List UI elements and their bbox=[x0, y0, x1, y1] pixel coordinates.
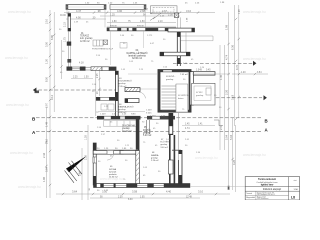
axis B dashed line bbox=[32, 116, 268, 123]
tiny dim texts below bottom wall bbox=[89, 187, 109, 192]
svg-text:1.049: 1.049 bbox=[100, 114, 106, 116]
svg-text:7.05 m2: 7.05 m2 bbox=[180, 74, 189, 76]
svg-text:greslap: greslap bbox=[118, 108, 126, 111]
top dimension line bbox=[64, 13, 215, 23]
wall below bay (horizontal) bbox=[160, 52, 190, 56]
svg-text:32.60 m2: 32.60 m2 bbox=[132, 57, 143, 60]
west wing: vertical wall x115.3 bbox=[115, 71, 118, 116]
svg-text:6.30: 6.30 bbox=[128, 199, 133, 200]
top-right bay wall (outlined) bbox=[168, 28, 195, 32]
svg-text:3.50: 3.50 bbox=[45, 41, 49, 47]
svg-text:12.48: 12.48 bbox=[186, 196, 192, 198]
balcony-to-bay connector lines bbox=[177, 17, 180, 28]
west wing interior dim line bbox=[97, 71, 101, 96]
hatched wall segment right of corner bbox=[91, 67, 116, 71]
central dark vertical wall below core bbox=[169, 113, 182, 184]
svg-text:2.25: 2.25 bbox=[97, 73, 99, 78]
bottom dimension ticks bbox=[62, 193, 217, 195]
nappali interior edge lines bbox=[128, 74, 160, 89]
interior thin verticals below top wall bbox=[111, 31, 144, 65]
svg-text:3.18: 3.18 bbox=[231, 94, 235, 100]
svg-text:3.58: 3.58 bbox=[132, 190, 138, 194]
west wing left edge lines bbox=[95, 71, 97, 116]
top dimension ticks bbox=[67, 11, 199, 13]
dimension row under terrace bbox=[73, 77, 89, 79]
svg-text:www.tervrajz.hu: www.tervrajz.hu bbox=[195, 156, 218, 160]
svg-text:KAMRA: KAMRA bbox=[151, 154, 159, 157]
svg-text:12.80 m2: 12.80 m2 bbox=[80, 41, 90, 43]
svg-text:2.10: 2.10 bbox=[45, 18, 49, 24]
svg-text:FŐZŐF.: FŐZŐF. bbox=[143, 129, 152, 132]
stair core outline bbox=[158, 70, 191, 113]
svg-text:90/240: 90/240 bbox=[137, 26, 144, 28]
terrace dim vertical bbox=[61, 40, 63, 79]
svg-text:4.74: 4.74 bbox=[185, 128, 190, 130]
svg-text:Tervező: Tervező bbox=[246, 192, 252, 195]
svg-text:parketta: parketta bbox=[109, 173, 117, 176]
svg-text:B: B bbox=[265, 118, 268, 123]
svg-text:1.049: 1.049 bbox=[196, 70, 202, 72]
terrace table symbol bbox=[93, 40, 103, 46]
svg-text:02 LÉPCSŐ: 02 LÉPCSŐ bbox=[178, 94, 190, 97]
svg-text:3.10: 3.10 bbox=[186, 9, 192, 13]
west wing: middle wall y97-100.7 bbox=[96, 97, 117, 101]
bottom-left room: left wall bbox=[93, 143, 96, 185]
dims above B wall bbox=[100, 110, 152, 116]
svg-text:1.98: 1.98 bbox=[239, 9, 241, 14]
counter row below kitchen wall bbox=[104, 121, 137, 127]
konyha room label bbox=[122, 125, 135, 133]
svg-text:2.41: 2.41 bbox=[219, 124, 223, 130]
nappali room label bbox=[127, 49, 148, 60]
svg-text:www.tervrajz.hu: www.tervrajz.hu bbox=[6, 103, 29, 107]
svg-text:3.40 m2: 3.40 m2 bbox=[160, 147, 168, 149]
svg-text:±0.00: ±0.00 bbox=[60, 15, 66, 17]
svg-text:3.54: 3.54 bbox=[257, 72, 262, 74]
svg-text:1.49: 1.49 bbox=[45, 121, 49, 127]
small mark on left dim line bbox=[35, 91, 40, 94]
top-center balcony block bbox=[151, 6, 178, 14]
svg-text:beton: beton bbox=[178, 97, 184, 100]
nappali furniture rect bbox=[120, 43, 127, 49]
svg-text:www.tervrajz.hu: www.tervrajz.hu bbox=[243, 10, 266, 14]
svg-text:8.50: 8.50 bbox=[45, 76, 49, 82]
door arc between bars bbox=[139, 92, 146, 98]
B-axis thick wall (kitchen wall) bbox=[97, 116, 175, 120]
svg-text:90/240: 90/240 bbox=[110, 26, 117, 28]
left dimension tick marks bbox=[45, 14, 55, 186]
svg-text:2.10: 2.10 bbox=[45, 138, 49, 144]
axis C dashed line (right) bbox=[178, 95, 267, 100]
svg-text:1.50: 1.50 bbox=[140, 21, 145, 23]
balcony corner X-box bbox=[174, 13, 178, 17]
svg-text:4.40: 4.40 bbox=[166, 190, 172, 194]
left low verticals (dim lines near szoba) bbox=[82, 125, 88, 200]
strip-to-wall connectors bbox=[67, 9, 145, 27]
right dimension ticks bbox=[227, 18, 240, 190]
svg-text:www.tervrajz.hu: www.tervrajz.hu bbox=[243, 57, 266, 61]
svg-text:www.tervrajz.hu: www.tervrajz.hu bbox=[10, 151, 33, 155]
main top wall with windows bbox=[107, 26, 177, 32]
svg-text:14.30 m2: 14.30 m2 bbox=[109, 177, 119, 179]
left dimension chain lines bbox=[46, 10, 54, 198]
svg-text:1.275: 1.275 bbox=[147, 35, 153, 37]
svg-text:1.049: 1.049 bbox=[146, 110, 152, 112]
svg-text:greslap: greslap bbox=[196, 94, 204, 97]
svg-text:1.05: 1.05 bbox=[140, 197, 145, 199]
bottom dim texts inside plan bbox=[97, 148, 133, 150]
svg-text:3.64: 3.64 bbox=[45, 166, 49, 172]
title block bbox=[245, 177, 299, 201]
svg-text:1.41: 1.41 bbox=[198, 124, 203, 126]
svg-text:03 KÖZL.: 03 KÖZL. bbox=[166, 75, 176, 78]
svg-text:05 KONYHA: 05 KONYHA bbox=[122, 125, 135, 128]
micro dimension texts scatter bbox=[59, 22, 222, 182]
bottom dimension line bbox=[56, 194, 230, 198]
svg-text:2120 Dunakeszi: 2120 Dunakeszi bbox=[257, 198, 269, 200]
terrace edge lines east of bay bbox=[181, 36, 214, 41]
small note text right of terrace label bbox=[92, 49, 114, 51]
terrace bottom wall: dark corner + window + piers bbox=[67, 67, 92, 71]
ground line to title block bbox=[190, 185, 246, 187]
svg-text:Nagy család: Nagy család bbox=[257, 197, 266, 199]
kamra walls (right of szoba) bbox=[169, 150, 183, 184]
stair inner landing rect bbox=[176, 84, 190, 112]
svg-text:1.98: 1.98 bbox=[225, 24, 229, 30]
svg-text:1.049: 1.049 bbox=[150, 116, 156, 118]
leader 2.40 diagonal bbox=[150, 13, 161, 21]
svg-text:1.75: 1.75 bbox=[63, 37, 66, 42]
svg-text:kult. greslap: kult. greslap bbox=[80, 37, 93, 40]
svg-text:2.44: 2.44 bbox=[42, 152, 46, 158]
kamra room label bbox=[151, 152, 159, 162]
room 06 label bbox=[118, 104, 133, 114]
dims right of central wall bbox=[185, 124, 203, 131]
upper floor wall strip (top, left part) bbox=[66, 5, 106, 10]
svg-text:2.30: 2.30 bbox=[118, 197, 123, 199]
svg-text:2.97: 2.97 bbox=[45, 102, 49, 108]
upper floor wall strip (top, middle part) bbox=[110, 5, 146, 10]
svg-text:1.20: 1.20 bbox=[45, 58, 49, 64]
svg-text:Megrendelő: Megrendelő bbox=[246, 196, 255, 199]
left dimension numbers (rotated) bbox=[42, 18, 54, 182]
svg-text:greslap: greslap bbox=[122, 127, 130, 130]
svg-text:2.10: 2.10 bbox=[158, 21, 163, 23]
right small room (bay, lower) bbox=[190, 72, 215, 105]
svg-text:3.10: 3.10 bbox=[198, 190, 204, 194]
bay right wall vertical double line bbox=[177, 32, 186, 66]
svg-text:2.20 m2: 2.20 m2 bbox=[151, 160, 159, 162]
terrace left wall (top-left vertical) bbox=[60, 14, 71, 67]
svg-text:5.04: 5.04 bbox=[229, 134, 233, 140]
svg-text:07 WC: 07 WC bbox=[196, 92, 203, 94]
right horizontal dim line bbox=[232, 72, 268, 75]
svg-text:6.80: 6.80 bbox=[50, 34, 54, 40]
svg-text:KÖZLEKEDŐ: KÖZLEKEDŐ bbox=[118, 80, 132, 83]
svg-text:10.42 m2: 10.42 m2 bbox=[122, 131, 132, 133]
room 07 label bbox=[160, 139, 169, 149]
svg-text:1.86: 1.86 bbox=[42, 176, 46, 182]
svg-text:KAMRA-MOSÓ: KAMRA-MOSÓ bbox=[118, 106, 133, 109]
bottom dimension numbers bbox=[72, 190, 204, 201]
axis C dashed line (left stub) bbox=[33, 88, 116, 93]
svg-text:2.25: 2.25 bbox=[73, 77, 78, 79]
svg-text:0.45: 0.45 bbox=[206, 70, 211, 72]
svg-text:1.45: 1.45 bbox=[219, 74, 223, 80]
bottom-left room: top wall bbox=[93, 151, 138, 155]
svg-text:1.80: 1.80 bbox=[112, 21, 117, 23]
stair treads bbox=[162, 84, 177, 112]
wall segment left of core (two bars) bbox=[125, 88, 140, 103]
svg-text:4.74: 4.74 bbox=[225, 54, 229, 60]
svg-text:greslap: greslap bbox=[118, 82, 126, 85]
svg-text:www.tervrajz.hu: www.tervrajz.hu bbox=[18, 185, 41, 189]
terrace room label POROTHERM bbox=[80, 33, 93, 43]
főzőfülke room label bbox=[143, 127, 152, 137]
svg-text:4.12: 4.12 bbox=[50, 94, 54, 100]
svg-text:földszinti alaprajz: földszinti alaprajz bbox=[263, 188, 282, 191]
svg-text:www.tervrajz.hu: www.tervrajz.hu bbox=[8, 10, 31, 14]
svg-text:stat.: stat. bbox=[294, 179, 298, 182]
svg-text:greslap: greslap bbox=[143, 131, 151, 134]
svg-text:laminált: laminált bbox=[109, 170, 117, 173]
dim above right room bbox=[196, 70, 211, 72]
svg-text:greslap: greslap bbox=[166, 78, 174, 81]
door arc bottom-left room bbox=[107, 154, 113, 160]
svg-text:4.26: 4.26 bbox=[232, 159, 236, 165]
svg-text:www.tervrajz.hu: www.tervrajz.hu bbox=[5, 56, 28, 60]
right dimension chain lines bbox=[220, 5, 239, 192]
watermark text marks bbox=[5, 10, 266, 189]
svg-text:greslap: greslap bbox=[151, 156, 159, 159]
svg-text:L8: L8 bbox=[291, 196, 295, 200]
svg-text:www.tervrajz.hu: www.tervrajz.hu bbox=[243, 153, 266, 157]
svg-text:3.64: 3.64 bbox=[72, 190, 78, 194]
svg-text:5.04: 5.04 bbox=[225, 134, 229, 140]
svg-text:greslap: greslap bbox=[160, 143, 168, 146]
svg-text:Tartószerkezeti: Tartószerkezeti bbox=[258, 178, 276, 181]
axis A dashed line bbox=[32, 127, 269, 135]
svg-text:1.50: 1.50 bbox=[84, 77, 89, 79]
svg-text:4.18: 4.18 bbox=[79, 62, 84, 64]
svg-text:1.20: 1.20 bbox=[241, 72, 246, 74]
texts inside top of core bbox=[166, 74, 189, 81]
step bracket near B axis right bbox=[214, 120, 223, 126]
axis D dashed line bbox=[173, 61, 256, 66]
svg-text:ELŐTÉR: ELŐTÉR bbox=[160, 141, 169, 144]
svg-text:9.045: 9.045 bbox=[146, 112, 152, 114]
svg-text:építési terv: építési terv bbox=[261, 184, 274, 187]
svg-text:TERASZ: TERASZ bbox=[80, 35, 90, 38]
svg-text:SZOBA: SZOBA bbox=[109, 168, 117, 171]
közlekedő label bbox=[118, 78, 132, 88]
bottom-room right wall with hatch bbox=[136, 120, 150, 184]
parallel line right of central wall bbox=[178, 113, 180, 160]
dark hatched box symbol bbox=[103, 40, 107, 45]
svg-text:2.26: 2.26 bbox=[225, 89, 229, 95]
bottom wall with window (left part) bbox=[93, 183, 190, 188]
szoba room label bbox=[109, 166, 119, 179]
washer fixtures room06 bbox=[101, 104, 114, 110]
svg-text:6.36: 6.36 bbox=[231, 44, 235, 50]
svg-text:1.45: 1.45 bbox=[185, 124, 190, 126]
top dimension numbers bbox=[76, 2, 200, 22]
svg-text:2.10: 2.10 bbox=[63, 22, 66, 27]
svg-text:9.70: 9.70 bbox=[235, 64, 239, 70]
svg-text:4.90: 4.90 bbox=[76, 16, 81, 19]
svg-text:1.30: 1.30 bbox=[85, 135, 88, 140]
right dimension numbers (rotated) bbox=[219, 9, 241, 165]
north arrow bbox=[65, 156, 87, 183]
svg-text:5.20 m2: 5.20 m2 bbox=[143, 135, 152, 137]
